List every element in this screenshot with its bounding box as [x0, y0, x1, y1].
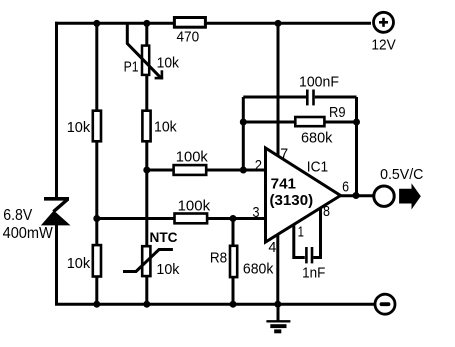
svg-text:10k: 10k — [67, 119, 91, 136]
wire feedback right vertical — [355, 97, 358, 195]
terminal minus circle — [375, 294, 395, 314]
svg-text:1: 1 — [298, 224, 304, 241]
wire pin1 to 1nF — [294, 221, 305, 258]
svg-text:100k: 100k — [178, 198, 211, 215]
svg-text:4: 4 — [268, 239, 276, 256]
thermistor NTC body — [142, 246, 150, 276]
svg-text:(3130): (3130) — [270, 192, 314, 209]
junction top rail / column3 P1 — [143, 20, 150, 27]
thermistor NTC bent line — [123, 250, 173, 272]
svg-text:6: 6 — [342, 178, 349, 195]
svg-text:0.5V/C: 0.5V/C — [380, 166, 423, 183]
wire bottom rail — [55, 303, 374, 306]
svg-text:10k: 10k — [157, 55, 180, 72]
svg-text:741: 741 — [271, 175, 296, 192]
potentiometer P1 wiper wire — [127, 23, 161, 78]
svg-text:470: 470 — [177, 29, 200, 46]
junction bottom rail / column3 NTC — [143, 301, 150, 308]
svg-text:NTC: NTC — [150, 229, 178, 245]
svg-text:100k: 100k — [176, 149, 208, 166]
wire column3 vertical — [145, 23, 148, 304]
junction row A / feedback tap — [240, 167, 247, 174]
svg-text:P1: P1 — [124, 59, 139, 76]
svg-text:680k: 680k — [243, 261, 274, 278]
svg-text:1nF: 1nF — [302, 265, 325, 282]
junction row B / R8 column — [230, 215, 237, 222]
svg-text:7: 7 — [280, 146, 288, 163]
svg-text:6.8V: 6.8V — [3, 207, 32, 224]
capacitor 1nF plates — [306, 247, 312, 263]
wire row B to pin3 — [97, 217, 266, 220]
terminal +12V circle — [374, 12, 394, 32]
resistor 100k row A body — [174, 165, 207, 175]
resistor 10k column2 lower body — [93, 245, 101, 276]
terminal +12V plus sign — [379, 18, 388, 27]
resistor 470 body — [174, 18, 205, 28]
potentiometer P1 wiper arrowhead — [155, 70, 164, 79]
wire pin7 supply — [277, 23, 280, 158]
junction R9 row / feedback right vertical — [353, 119, 360, 126]
svg-text:R9: R9 — [329, 104, 346, 121]
wire feedback top right — [315, 96, 357, 99]
resistor R9 680k body — [295, 117, 324, 126]
svg-text:3: 3 — [253, 204, 260, 221]
svg-text:2: 2 — [255, 157, 262, 174]
junction bottom rail / R8 column — [230, 301, 237, 308]
wire left vertical upper — [55, 22, 58, 199]
resistor 100k row B body — [175, 214, 208, 224]
ground symbol — [266, 304, 290, 333]
svg-text:680k: 680k — [301, 130, 333, 147]
wire output pin6 — [340, 194, 374, 197]
svg-text:10k: 10k — [156, 261, 179, 278]
junction top rail / pin7 supply — [275, 20, 282, 27]
svg-text:400mW: 400mW — [3, 225, 54, 242]
wire R9 row — [243, 121, 356, 124]
junction feedback tap / R9 row — [240, 119, 247, 126]
wire top rail +12V — [55, 22, 371, 25]
zener diode D1 diagonal — [53, 199, 67, 211]
svg-text:10k: 10k — [67, 255, 91, 272]
junction bottom rail / column2 — [93, 301, 100, 308]
junction output node pin6 — [353, 192, 360, 199]
terminal minus sign — [382, 302, 389, 306]
resistor P1 10k body — [142, 46, 149, 75]
junction bottom rail / pin4 ground — [274, 301, 281, 308]
wire pin4 to ground rail — [276, 232, 279, 304]
svg-text:10k: 10k — [154, 119, 177, 136]
zener diode D1 anode triangle — [41, 211, 71, 226]
wire feedback tap vertical — [242, 97, 245, 170]
junction row A / column3 — [143, 167, 150, 174]
svg-text:R8: R8 — [210, 249, 227, 266]
resistor 10k column3 body — [142, 111, 150, 142]
output arrow — [399, 183, 421, 209]
op-amp IC1 triangle — [266, 148, 341, 242]
wire R8 column — [232, 219, 235, 305]
wire column2 vertical — [95, 23, 98, 304]
zener diode D1 6.8V cathode bar — [44, 197, 69, 201]
wire left vertical lower — [55, 225, 58, 304]
junction row B / column2 — [93, 215, 100, 222]
junction top rail / column2 — [93, 20, 100, 27]
svg-text:100nF: 100nF — [299, 74, 339, 91]
resistor R8 680k body — [230, 246, 237, 277]
svg-text:IC1: IC1 — [307, 159, 328, 176]
resistor 10k column2 upper body — [93, 111, 101, 142]
wire row A to pin2 — [147, 169, 266, 172]
output terminal circle — [374, 186, 394, 206]
wire feedback top left — [243, 96, 306, 99]
capacitor 100nF plates — [307, 90, 313, 106]
svg-text:8: 8 — [323, 203, 330, 220]
wire pin8 to 1nF — [313, 205, 320, 258]
svg-text:12V: 12V — [371, 37, 395, 54]
